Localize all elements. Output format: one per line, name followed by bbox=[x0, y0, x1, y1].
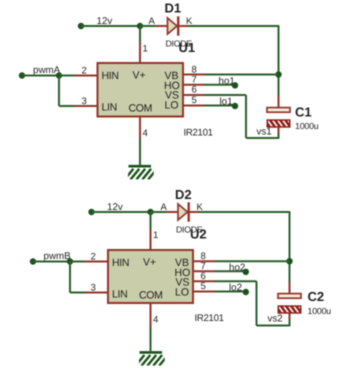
U1 pin 1 wire from node A bbox=[139, 26, 141, 43]
U2 pin name V+ bbox=[143, 257, 156, 269]
wire pin 8 to C2 junction bbox=[215, 260, 290, 262]
C1 bottom pin stub bbox=[278, 127, 280, 134]
U2 pin 5 stub bbox=[193, 291, 215, 293]
wire vs2 horizontal bbox=[257, 325, 290, 327]
op-amp driver U2 IR2101 body bbox=[108, 250, 193, 303]
U2 pin 2 stub bbox=[85, 261, 109, 263]
wire pwmA to junction bbox=[22, 75, 59, 77]
wire pin 7 ho2 bbox=[215, 270, 246, 272]
svg-text:LO: LO bbox=[165, 99, 179, 111]
terminal pwmA dot bbox=[19, 72, 25, 78]
U2 pin number 2 bbox=[91, 251, 96, 262]
wire vs2 vertical bbox=[256, 281, 258, 325]
pwmB junction dot bbox=[67, 258, 73, 264]
svg-text:lo2: lo2 bbox=[229, 283, 242, 294]
wire pin 4 to ground (lower) bbox=[150, 327, 152, 352]
terminal 12v (upper) dot bbox=[78, 23, 84, 29]
label D1 bbox=[165, 0, 182, 15]
U1 pin number 4 bbox=[143, 128, 148, 139]
svg-text:V+: V+ bbox=[143, 257, 156, 269]
net label vs2 bbox=[268, 313, 283, 324]
wire 12v terminal to node A (upper) bbox=[81, 25, 140, 27]
node VB/C2 junction (lower) bbox=[286, 258, 292, 264]
U1 pin number 6 bbox=[192, 85, 197, 96]
pwmA junction dot bbox=[56, 72, 62, 78]
ho1 wire end dot bbox=[232, 82, 238, 88]
U1 pin number 8 bbox=[192, 64, 197, 75]
U1 pin number 7 bbox=[192, 74, 197, 85]
node A junction (lower) bbox=[147, 209, 153, 215]
svg-text:LIN: LIN bbox=[112, 288, 127, 300]
terminal 12v (lower) dot bbox=[88, 209, 94, 215]
wire 12v terminal to node A (lower) bbox=[92, 211, 151, 213]
U1 pin 2 stub bbox=[75, 75, 98, 77]
wire D1 cathode K to top-right corner bbox=[188, 25, 279, 27]
op-amp driver U1 IR2101 body bbox=[98, 63, 184, 117]
wire pwmB to junction bbox=[33, 261, 70, 263]
wire C2 bottom to vs2 bbox=[289, 320, 291, 327]
ground (upper) bbox=[125, 166, 157, 179]
U1 pin 1 stub bbox=[139, 43, 141, 64]
svg-text:U1: U1 bbox=[179, 40, 196, 55]
svg-text:vs2: vs2 bbox=[268, 313, 283, 324]
node A junction (upper) bbox=[137, 23, 143, 29]
label 1000u (C2 value) bbox=[308, 306, 332, 316]
capacitor C2 bbox=[278, 294, 305, 315]
U2 pin 6 stub bbox=[193, 280, 215, 282]
C2 top pin stub bbox=[289, 282, 291, 294]
U2 pin number 8 bbox=[201, 251, 206, 262]
label 1000u (C1 value) bbox=[295, 121, 319, 131]
net label A (lower) bbox=[161, 202, 168, 213]
wire pin 7 ho1 bbox=[204, 84, 235, 86]
U2 pin name LIN bbox=[112, 288, 127, 300]
svg-text:COM: COM bbox=[129, 103, 153, 115]
wire node A to diode D1 anode bbox=[140, 25, 156, 27]
svg-text:1: 1 bbox=[153, 230, 158, 241]
net label K (upper) bbox=[186, 16, 193, 27]
U1 pin 5 stub bbox=[183, 105, 204, 107]
U2 pin number 6 bbox=[201, 271, 206, 282]
diode D2 bbox=[166, 202, 198, 221]
node VB/C1 junction (upper) bbox=[275, 71, 281, 77]
svg-text:1000u: 1000u bbox=[295, 121, 319, 131]
svg-text:IR2101: IR2101 bbox=[195, 313, 224, 324]
wire pin 8 to C1 junction bbox=[204, 74, 279, 76]
svg-text:3: 3 bbox=[91, 282, 96, 293]
label C1 bbox=[295, 105, 312, 120]
net label pwmA bbox=[33, 65, 61, 76]
svg-text:D2: D2 bbox=[175, 187, 192, 202]
svg-text:U2: U2 bbox=[190, 226, 207, 241]
svg-text:LIN: LIN bbox=[102, 101, 117, 113]
U1 pin name VS bbox=[165, 89, 179, 101]
wire top-right vertical down to C1 bbox=[278, 25, 280, 97]
diode D1 bbox=[156, 16, 188, 35]
U1 pin name LO bbox=[165, 99, 179, 111]
U1 pin name V+ bbox=[133, 70, 146, 82]
net label A (upper) bbox=[149, 16, 156, 27]
svg-text:K: K bbox=[197, 202, 204, 213]
ground (lower) bbox=[136, 352, 168, 365]
U1 pin name LIN bbox=[102, 101, 117, 113]
label DIODE (D1 value) bbox=[166, 39, 193, 49]
svg-text:4: 4 bbox=[153, 315, 158, 326]
svg-text:LO: LO bbox=[175, 286, 189, 298]
svg-text:IR2101: IR2101 bbox=[184, 128, 213, 139]
U1 pin 8 stub bbox=[183, 74, 204, 76]
net label pwmB bbox=[44, 251, 72, 262]
svg-text:D1: D1 bbox=[165, 0, 182, 15]
wire pin 5 lo2 bbox=[215, 291, 246, 293]
U2 pin 3 stub bbox=[85, 292, 109, 294]
wire D2 cathode K to top-right corner (lower) bbox=[198, 211, 290, 213]
wire vs1 vertical bbox=[245, 95, 247, 138]
svg-text:2: 2 bbox=[82, 65, 87, 76]
U2 pin name VB bbox=[175, 257, 189, 269]
wire pwmB junction to pin 2 bbox=[70, 261, 85, 263]
net label 12v (lower) bbox=[107, 202, 123, 213]
svg-text:HIN: HIN bbox=[112, 257, 129, 269]
wire to pin 3 (lower) bbox=[70, 292, 85, 294]
svg-text:4: 4 bbox=[143, 128, 148, 139]
svg-text:V+: V+ bbox=[133, 70, 146, 82]
ho2 wire end dot bbox=[243, 269, 249, 275]
svg-text:C2: C2 bbox=[308, 289, 325, 304]
U2 pin number 4 bbox=[153, 315, 158, 326]
lo2 wire end dot bbox=[243, 289, 249, 295]
U2 pin name HO bbox=[175, 267, 191, 279]
svg-text:HIN: HIN bbox=[102, 70, 119, 82]
svg-text:1: 1 bbox=[143, 44, 148, 55]
label IR2101 (U2 value) bbox=[195, 313, 224, 324]
wire vs1 horizontal bbox=[246, 137, 279, 139]
U1 pin number 3 bbox=[82, 96, 87, 107]
U2 pin number 5 bbox=[201, 281, 206, 292]
svg-text:2: 2 bbox=[91, 251, 96, 262]
wire C1 bottom to vs1 bbox=[278, 133, 280, 139]
wire pwmA junction down bbox=[58, 76, 60, 107]
U1 pin 3 stub bbox=[75, 105, 98, 107]
net label 12v (upper) bbox=[97, 16, 113, 27]
wire pwmA junction to pin 2 bbox=[59, 75, 75, 77]
U2 pin name LO bbox=[175, 286, 189, 298]
U1 pin number 1 bbox=[143, 44, 148, 55]
U1 pin number 2 bbox=[82, 65, 87, 76]
svg-text:1000u: 1000u bbox=[308, 306, 332, 316]
terminal pwmB dot bbox=[30, 258, 36, 264]
U1 pin name COM bbox=[129, 103, 153, 115]
wire pwmB junction down bbox=[69, 262, 71, 293]
U2 pin name VS bbox=[176, 276, 190, 288]
svg-text:5: 5 bbox=[201, 281, 206, 292]
label C2 bbox=[308, 289, 325, 304]
U2 pin 1 stub bbox=[150, 230, 152, 251]
U2 pin 7 stub bbox=[193, 270, 215, 272]
C2 bottom pin stub bbox=[289, 313, 291, 320]
svg-text:3: 3 bbox=[82, 96, 87, 107]
wire pin 6 right (lower) bbox=[215, 280, 257, 282]
wire pin 5 lo1 bbox=[204, 105, 235, 107]
net label lo2 bbox=[229, 283, 242, 294]
svg-text:K: K bbox=[186, 16, 193, 27]
label DIODE (D2 value) bbox=[176, 225, 203, 235]
U2 pin number 3 bbox=[91, 282, 96, 293]
net label lo1 bbox=[220, 97, 233, 108]
label U1 bbox=[179, 40, 196, 55]
U2 pin number 1 bbox=[153, 230, 158, 241]
svg-text:C1: C1 bbox=[295, 105, 312, 120]
svg-text:6: 6 bbox=[192, 85, 197, 96]
U1 pin name HO bbox=[164, 80, 180, 92]
label U2 bbox=[190, 226, 207, 241]
svg-text:lo1: lo1 bbox=[220, 97, 233, 108]
wire right vertical down to C2 bbox=[289, 211, 291, 283]
net label ho2 bbox=[229, 262, 245, 273]
U1 pin name HIN bbox=[102, 70, 119, 82]
U1 pin name VB bbox=[165, 70, 179, 82]
svg-text:5: 5 bbox=[192, 95, 197, 106]
svg-text:vs1: vs1 bbox=[257, 127, 272, 138]
svg-text:COM: COM bbox=[139, 290, 163, 302]
wire pin 6 right bbox=[204, 94, 246, 96]
U2 pin name HIN bbox=[112, 257, 129, 269]
capacitor C1 bbox=[267, 108, 294, 129]
U2 pin 4 stub bbox=[150, 303, 152, 327]
wire to pin 3 bbox=[59, 105, 75, 107]
U1 pin 7 stub bbox=[183, 84, 204, 86]
wire pin 4 to ground (upper) bbox=[139, 139, 141, 166]
U2 pin number 7 bbox=[201, 261, 206, 272]
net label K (lower) bbox=[197, 202, 204, 213]
net label ho1 bbox=[219, 76, 235, 87]
label IR2101 (U1 value) bbox=[184, 128, 213, 139]
label D2 bbox=[175, 187, 192, 202]
net label vs1 bbox=[257, 127, 272, 138]
C1 top pin stub bbox=[278, 96, 280, 108]
wire node A to diode D2 anode bbox=[151, 211, 167, 213]
U2 pin 1 wire from node A bbox=[150, 212, 152, 230]
U1 pin 4 stub bbox=[139, 117, 141, 139]
U1 pin number 5 bbox=[192, 95, 197, 106]
U1 pin 6 stub bbox=[183, 94, 204, 96]
U2 pin name COM bbox=[139, 290, 163, 302]
lo1 wire end dot bbox=[232, 103, 238, 109]
U2 pin 8 stub bbox=[193, 260, 215, 262]
